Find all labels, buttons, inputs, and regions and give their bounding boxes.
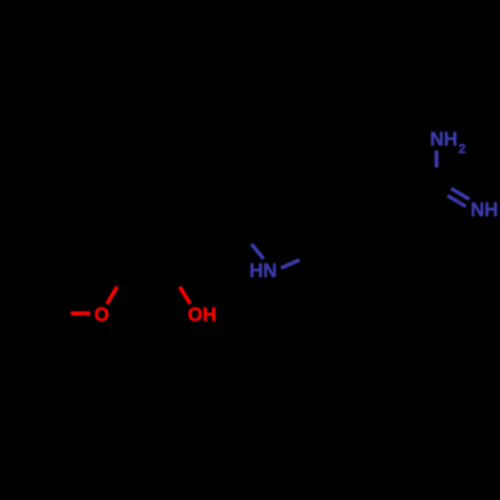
bond N-C7a (N half), indoline <box>281 260 299 268</box>
svg-text:HN: HN <box>249 261 276 282</box>
bond O-Caryl (O half), methoxy diagonal <box>107 287 117 304</box>
double bond C=NH line 2 (N half) <box>448 196 466 207</box>
svg-text:OH: OH <box>188 305 217 326</box>
bond C2-N (N half), indoline <box>251 244 263 259</box>
svg-text:2: 2 <box>459 141 466 156</box>
svg-text:NH: NH <box>471 200 498 221</box>
bond C-NH2 (N half), vertical <box>435 151 439 168</box>
svg-text:NH: NH <box>430 130 457 151</box>
bond Caryl-OH (O half) <box>180 287 190 304</box>
bond CH3-O (O half), methoxy horizontal <box>71 311 91 315</box>
double bond C=NH line 1 (N half) <box>451 188 469 199</box>
svg-text:O: O <box>94 305 109 326</box>
